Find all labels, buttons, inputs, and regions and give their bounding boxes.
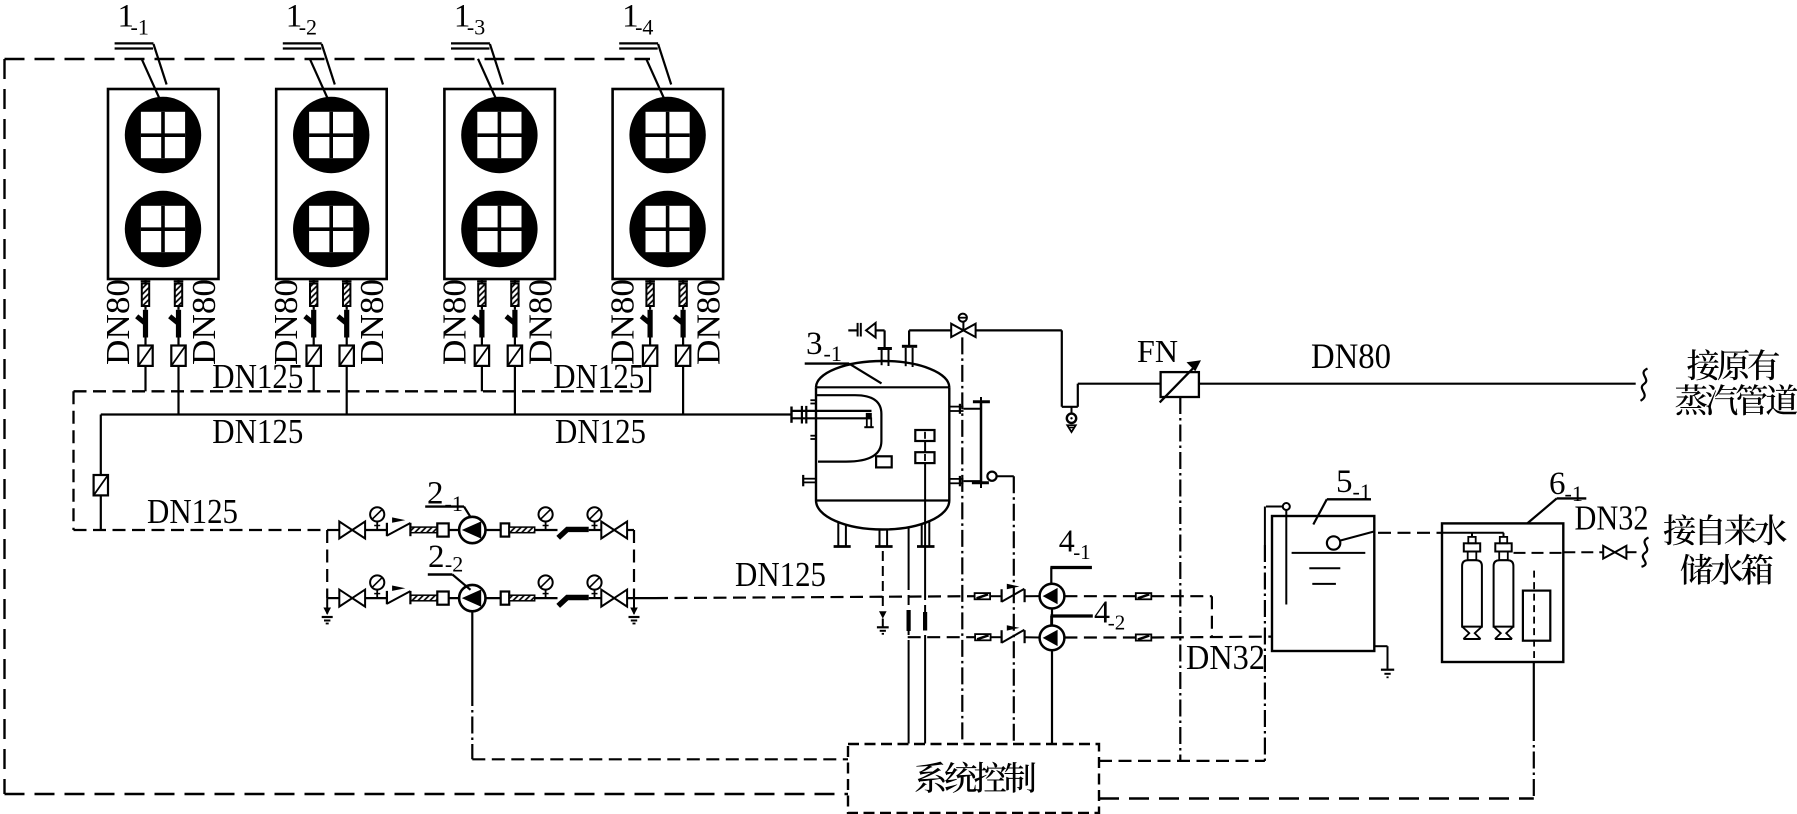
- svg-text:-3: -3: [467, 15, 485, 40]
- svg-text:DN125: DN125: [735, 555, 826, 594]
- svg-text:DN80: DN80: [100, 279, 137, 365]
- svg-text:DN80: DN80: [1311, 336, 1391, 376]
- svg-text:3: 3: [806, 326, 823, 362]
- svg-text:DN125: DN125: [147, 492, 238, 531]
- svg-text:DN80: DN80: [522, 279, 559, 365]
- svg-text:DN32: DN32: [1186, 638, 1265, 677]
- svg-text:2: 2: [428, 539, 445, 575]
- svg-text:-1: -1: [824, 341, 842, 366]
- svg-text:DN80: DN80: [436, 279, 473, 365]
- svg-text:DN80: DN80: [268, 279, 305, 365]
- svg-text:DN80: DN80: [691, 279, 728, 365]
- svg-text:FN: FN: [1137, 333, 1178, 369]
- svg-text:-2: -2: [1108, 611, 1126, 635]
- svg-text:-2: -2: [445, 552, 463, 577]
- svg-text:5: 5: [1336, 464, 1353, 500]
- svg-text:-1: -1: [1073, 540, 1091, 564]
- svg-text:-4: -4: [635, 15, 653, 40]
- svg-text:-1: -1: [445, 491, 463, 516]
- svg-text:DN80: DN80: [605, 279, 642, 365]
- svg-text:-2: -2: [299, 15, 317, 40]
- svg-text:6: 6: [1549, 466, 1566, 502]
- svg-text:-1: -1: [131, 15, 149, 40]
- svg-text:DN125: DN125: [212, 412, 303, 451]
- svg-text:DN80: DN80: [354, 279, 391, 365]
- svg-text:DN32: DN32: [1575, 499, 1649, 538]
- svg-text:DN125: DN125: [555, 412, 646, 451]
- svg-text:DN80: DN80: [186, 279, 223, 365]
